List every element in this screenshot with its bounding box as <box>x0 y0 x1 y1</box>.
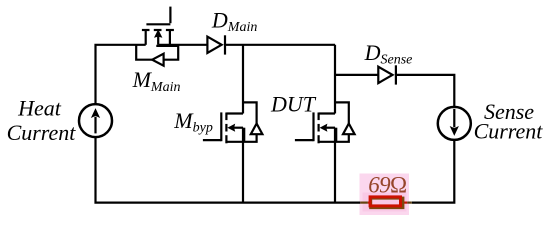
svg-text:MMain: MMain <box>132 67 181 95</box>
svg-text:Current: Current <box>7 120 77 145</box>
body diode of DUT <box>335 102 355 141</box>
wire: red stub at resistor left terminal <box>368 202 371 204</box>
wire: olive-brown segment entering resistor from left <box>360 202 368 204</box>
wire: D_Main cathode to DUT drain rail <box>225 44 335 46</box>
body diode of M_byp <box>243 102 262 141</box>
current source I_sense (circle, arrow down) <box>438 107 471 140</box>
svg-text:Current: Current <box>474 119 544 144</box>
highlight box around R_sense <box>360 174 410 216</box>
diode D_Sense <box>378 65 396 84</box>
svg-text:Mbyp: Mbyp <box>173 108 213 136</box>
wire: M_byp drain branch <box>242 45 244 114</box>
wire: DUT drain to D_Sense anode <box>335 74 378 76</box>
svg-text:DSense: DSense <box>364 40 413 68</box>
wire: M_Main bulk connector <box>156 45 178 47</box>
resistor R_sense 69 ohm (brown shadow box) <box>371 198 403 208</box>
wire: M_Main source to D_Main anode <box>159 44 208 46</box>
wire: DUT source down to bottom rail <box>334 142 336 203</box>
svg-text:DUT: DUT <box>270 92 317 117</box>
diode D_Main <box>207 35 225 54</box>
wire: heat source bottom to bottom rail <box>96 137 361 203</box>
wire: top-left corner from heat source to M_Main source <box>96 45 146 104</box>
svg-text:Heat: Heat <box>17 96 62 121</box>
current source I_heat (circle, arrow up) <box>79 104 112 137</box>
mosfet M_Main <box>142 7 174 45</box>
wire: red stub at resistor right terminal <box>403 202 408 204</box>
svg-text:69Ω: 69Ω <box>368 172 406 197</box>
wire: M_byp source down to bottom rail <box>242 142 244 203</box>
svg-text:DMain: DMain <box>211 7 257 35</box>
mosfet M_byp <box>203 112 244 143</box>
resistor R_sense 69 ohm (red box) <box>370 197 400 206</box>
mosfet DUT <box>295 112 336 143</box>
body diode of M_Main <box>136 45 178 66</box>
wire: DUT drain branch <box>334 45 336 114</box>
wire: D_Sense cathode to sense source top <box>396 75 454 107</box>
wire: sense source bottom to bottom-right corner <box>412 140 455 203</box>
wire: olive-brown segment leaving resistor to right <box>407 202 412 204</box>
